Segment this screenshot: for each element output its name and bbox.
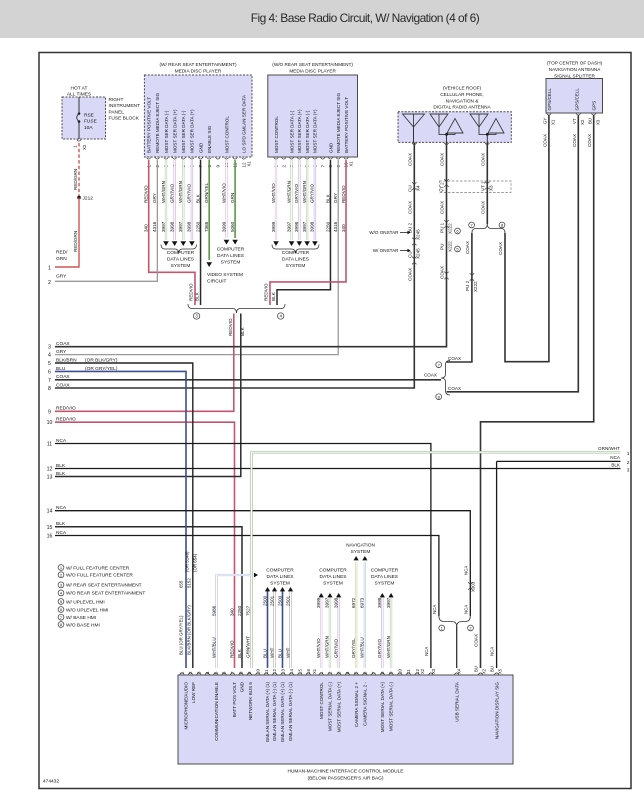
svg-text:INSTRUMENT: INSTRUMENT	[109, 103, 141, 109]
svg-text:WHT/VIO: WHT/VIO	[316, 638, 321, 658]
svg-text:MOST SER DATA (+): MOST SER DATA (+)	[172, 109, 177, 153]
svg-text:WHT/GRN: WHT/GRN	[286, 181, 291, 203]
svg-text:340: 340	[341, 224, 346, 232]
svg-text:2500: 2500	[262, 595, 267, 606]
svg-text:10: 10	[255, 668, 260, 674]
svg-text:CAMERA SIGNAL 2 -: CAMERA SIGNAL 2 -	[363, 682, 368, 726]
svg-text:CU: CU	[407, 185, 412, 192]
svg-text:COAX: COAX	[56, 341, 70, 347]
svg-text:11: 11	[47, 442, 52, 448]
svg-text:GRN/YEL: GRN/YEL	[204, 182, 209, 203]
svg-text:5986: 5986	[211, 605, 216, 616]
svg-text:COAX: COAX	[480, 153, 485, 166]
svg-text:WHT/VIO: WHT/VIO	[271, 183, 276, 203]
svg-text:5152: 5152	[187, 578, 192, 588]
svg-text:3: 3	[627, 468, 630, 474]
svg-text:GRN/WHT: GRN/WHT	[598, 446, 620, 451]
svg-text:15: 15	[47, 525, 53, 531]
svg-text:BLK: BLK	[237, 648, 242, 658]
svg-text:CELLULAR PHONE,: CELLULAR PHONE,	[440, 92, 484, 97]
svg-text:DATA LINES: DATA LINES	[282, 257, 309, 263]
svg-text:NAVIGATION &: NAVIGATION &	[446, 98, 480, 103]
svg-text:MOST SER DATA (-): MOST SER DATA (-)	[305, 110, 310, 153]
svg-text:RED/VIO: RED/VIO	[56, 417, 76, 423]
svg-text:3999: 3999	[221, 221, 226, 232]
svg-text:W/ BASE HMI: W/ BASE HMI	[66, 615, 96, 621]
svg-text:LO SPD GMLAN SER DATA: LO SPD GMLAN SER DATA	[242, 94, 247, 153]
svg-text:340: 340	[144, 224, 149, 232]
svg-text:14: 14	[289, 668, 294, 674]
svg-text:SYSTEM: SYSTEM	[270, 580, 290, 586]
svg-text:REDVIO: REDVIO	[188, 283, 193, 301]
svg-text:REDVIO: REDVIO	[263, 283, 268, 301]
svg-text:NCA: NCA	[463, 605, 468, 614]
svg-text:HUMAN-MACHINE INTERFACE CONTRO: HUMAN-MACHINE INTERFACE CONTROL MODULE	[287, 769, 403, 775]
svg-text:BU: BU	[490, 666, 495, 672]
svg-text:7: 7	[48, 378, 51, 384]
svg-text:COAX: COAX	[424, 373, 437, 378]
svg-text:2: 2	[48, 280, 51, 286]
svg-text:11: 11	[406, 669, 411, 674]
svg-text:VT 2: VT 2	[440, 182, 445, 192]
svg-text:10: 10	[397, 668, 402, 674]
svg-text:SYSTEM: SYSTEM	[351, 549, 371, 555]
svg-text:X245: X245	[415, 229, 420, 240]
svg-text:NCA: NCA	[610, 455, 621, 460]
svg-text:3997: 3997	[161, 221, 166, 232]
svg-text:(OR 654): (OR 654)	[192, 553, 197, 572]
svg-text:MOST CONTROL: MOST CONTROL	[319, 682, 324, 719]
svg-text:MOST SERIAL DATA (-): MOST SERIAL DATA (-)	[389, 682, 394, 732]
svg-text:WHT/VIO: WHT/VIO	[221, 183, 226, 203]
svg-text:3998: 3998	[169, 221, 174, 232]
svg-text:VT: VT	[572, 118, 577, 124]
svg-text:SYSTEM: SYSTEM	[286, 263, 306, 269]
svg-text:X1: X1	[247, 161, 252, 167]
svg-text:LOW REF: LOW REF	[191, 682, 196, 703]
svg-text:MOST CONTROL: MOST CONTROL	[224, 116, 229, 153]
svg-text:NCA: NCA	[463, 566, 468, 575]
svg-text:MICROPHONE/AUDIO: MICROPHONE/AUDIO	[184, 682, 189, 730]
svg-text:PU: PU	[440, 244, 445, 250]
svg-text:4: 4	[48, 353, 51, 359]
svg-text:GRY/VIO: GRY/VIO	[310, 184, 315, 203]
svg-text:COAX: COAX	[480, 201, 485, 214]
svg-text:1: 1	[48, 266, 51, 272]
svg-text:3997: 3997	[286, 221, 291, 232]
svg-text:CAMERA SIGNAL 2 +: CAMERA SIGNAL 2 +	[354, 682, 359, 727]
svg-text:RED/VIO: RED/VIO	[56, 406, 76, 412]
svg-text:3997: 3997	[386, 597, 391, 608]
svg-text:NAVIGATION: NAVIGATION	[346, 543, 375, 549]
svg-text:WHT/GRN: WHT/GRN	[302, 181, 307, 203]
svg-text:GMLAN SERIAL DATA (-) (1): GMLAN SERIAL DATA (-) (1)	[272, 682, 277, 742]
svg-text:ENABLE SIG: ENABLE SIG	[207, 125, 212, 153]
svg-text:PANEL: PANEL	[109, 109, 125, 115]
svg-text:GMLAN SERIAL DATA (+) (1): GMLAN SERIAL DATA (+) (1)	[280, 682, 285, 743]
svg-text:GRY: GRY	[56, 274, 67, 280]
svg-text:BU: BU	[474, 666, 479, 672]
svg-text:GRY/VIO: GRY/VIO	[294, 184, 299, 203]
svg-text:2250: 2250	[195, 221, 200, 232]
svg-text:474432: 474432	[43, 779, 59, 785]
svg-text:X1: X1	[349, 161, 354, 167]
svg-text:W/ UPLEVEL HMI: W/ UPLEVEL HMI	[66, 599, 105, 605]
svg-text:NCA: NCA	[424, 647, 429, 656]
svg-text:WHT/GRN: WHT/GRN	[178, 181, 183, 203]
svg-text:NAVIGATION ANTENNA: NAVIGATION ANTENNA	[549, 67, 602, 72]
svg-text:BATTERY POSITIVE VOLT: BATTERY POSITIVE VOLT	[344, 97, 349, 153]
svg-text:W/O UPLEVEL HMI: W/O UPLEVEL HMI	[66, 607, 108, 613]
svg-text:REDVIO: REDVIO	[144, 185, 149, 203]
svg-text:COAX: COAX	[56, 374, 70, 380]
svg-text:COAX: COAX	[474, 634, 479, 647]
svg-text:COAX: COAX	[465, 241, 470, 254]
svg-text:BU: BU	[587, 118, 592, 124]
svg-text:GPS: GPS	[592, 101, 597, 111]
svg-text:COMPUTER: COMPUTER	[319, 568, 347, 574]
svg-text:X5: X5	[498, 668, 503, 674]
svg-text:BLU: BLU	[277, 649, 282, 658]
svg-text:COAX: COAX	[542, 134, 547, 147]
svg-text:GMLAN SERIAL DATA (-) (1): GMLAN SERIAL DATA (-) (1)	[288, 682, 293, 742]
svg-text:4316: 4316	[333, 221, 338, 232]
svg-text:DATA LINES: DATA LINES	[371, 574, 398, 580]
svg-text:2: 2	[281, 165, 286, 168]
svg-text:6972: 6972	[351, 597, 356, 608]
svg-text:X222: X222	[448, 223, 453, 234]
svg-text:WHT/GRN: WHT/GRN	[386, 636, 391, 658]
svg-text:COAX: COAX	[407, 268, 412, 281]
svg-text:BLK: BLK	[195, 291, 200, 301]
svg-text:CIRCUIT: CIRCUIT	[207, 279, 227, 285]
svg-text:DIGITAL RADIO ANTENNA: DIGITAL RADIO ANTENNA	[433, 105, 491, 110]
svg-text:X3: X3	[431, 668, 436, 674]
svg-text:COMPUTER: COMPUTER	[217, 247, 245, 253]
svg-text:COAX: COAX	[440, 266, 445, 279]
svg-text:X4: X4	[415, 185, 420, 191]
svg-text:REMOTE MEDIA EJECT SIG: REMOTE MEDIA EJECT SIG	[155, 92, 160, 153]
svg-text:9: 9	[48, 409, 51, 415]
svg-text:COMPUTER: COMPUTER	[282, 250, 310, 256]
svg-text:W/O BASE HMI: W/O BASE HMI	[66, 622, 100, 628]
svg-text:VT 1: VT 1	[480, 181, 485, 191]
svg-text:8: 8	[48, 386, 51, 392]
svg-text:6973: 6973	[360, 597, 365, 608]
svg-text:WHT/GRN: WHT/GRN	[161, 181, 166, 203]
svg-text:REDVIO: REDVIO	[229, 640, 234, 658]
svg-text:X4: X4	[457, 668, 462, 674]
svg-text:2250: 2250	[237, 605, 242, 616]
svg-text:X222: X222	[473, 281, 478, 292]
svg-text:NAVIGATION DISPLAY SIG: NAVIGATION DISPLAY SIG	[494, 682, 499, 740]
svg-text:X2: X2	[82, 144, 87, 150]
svg-text:655: 655	[179, 580, 184, 588]
svg-text:X1: X1	[312, 668, 317, 674]
svg-text:2501: 2501	[285, 595, 290, 606]
svg-text:GPS/CELL: GPS/CELL	[547, 88, 552, 111]
svg-text:COAX: COAX	[56, 382, 70, 388]
svg-text:BLK: BLK	[325, 193, 330, 203]
svg-text:PU 2: PU 2	[465, 280, 470, 291]
svg-text:10A: 10A	[84, 125, 93, 131]
svg-text:MOST SERIAL DATA (+): MOST SERIAL DATA (+)	[380, 682, 385, 733]
svg-text:COMPUTER: COMPUTER	[167, 250, 195, 256]
svg-text:GRY/VIO: GRY/VIO	[333, 639, 338, 658]
svg-text:COAX: COAX	[440, 201, 445, 214]
svg-text:RIGHT: RIGHT	[109, 97, 124, 103]
svg-text:HOT AT: HOT AT	[71, 86, 88, 92]
svg-text:BLK: BLK	[271, 291, 276, 301]
svg-text:NETWORK BUS 5: NETWORK BUS 5	[248, 682, 253, 720]
svg-text:MOST SERIAL DATA (-): MOST SERIAL DATA (-)	[328, 682, 333, 732]
svg-text:X3: X3	[595, 119, 600, 125]
svg-text:MOST SER DATA (+): MOST SER DATA (+)	[313, 109, 318, 153]
svg-text:X3: X3	[488, 185, 493, 191]
svg-text:X222: X222	[448, 241, 453, 252]
svg-text:14: 14	[47, 509, 53, 515]
svg-text:3998: 3998	[187, 221, 192, 232]
svg-text:MOST SER DATA (-): MOST SER DATA (-)	[164, 110, 169, 153]
svg-text:(W/O REAR SEAT ENTERTAINMENT): (W/O REAR SEAT ENTERTAINMENT)	[272, 62, 353, 67]
svg-text:W/ REAR SEAT ENTERTAINMENT: W/ REAR SEAT ENTERTAINMENT	[66, 583, 142, 589]
svg-text:3998: 3998	[294, 221, 299, 232]
svg-text:1: 1	[627, 451, 630, 457]
svg-text:MOST SER DATA (-): MOST SER DATA (-)	[289, 110, 294, 153]
svg-text:FUSE BLOCK: FUSE BLOCK	[109, 116, 140, 122]
svg-text:WHT: WHT	[269, 647, 274, 658]
svg-text:GND: GND	[328, 142, 333, 153]
svg-text:W/ ONSTAR: W/ ONSTAR	[373, 248, 399, 253]
svg-text:COAX: COAX	[587, 134, 592, 147]
svg-text:16: 16	[306, 668, 311, 674]
svg-text:7: 7	[320, 165, 325, 168]
svg-text:Fig 4: Base Radio Circuit, W/: Fig 4: Base Radio Circuit, W/ Navigation…	[251, 11, 480, 25]
svg-text:7527: 7527	[245, 605, 250, 616]
svg-text:W/ FULL FEATURE CENTER: W/ FULL FEATURE CENTER	[66, 565, 130, 571]
svg-text:BATT POS VOLT: BATT POS VOLT	[232, 682, 237, 717]
svg-text:(W/ REAR SEAT ENTERTAINMENT): (W/ REAR SEAT ENTERTAINMENT)	[160, 62, 237, 67]
svg-text:MEDIA DISC PLAYER: MEDIA DISC PLAYER	[175, 68, 222, 73]
svg-text:GRY: GRY	[56, 349, 67, 355]
svg-text:3998: 3998	[377, 597, 382, 608]
svg-text:MOST SERIAL DATA (+): MOST SERIAL DATA (+)	[336, 682, 341, 733]
svg-text:SYSTEM: SYSTEM	[221, 260, 241, 266]
svg-text:5: 5	[48, 361, 51, 367]
svg-text:PU 1: PU 1	[440, 222, 445, 233]
svg-text:GRY/VIO: GRY/VIO	[169, 184, 174, 203]
svg-text:REMOTE MEDIA EJECT SIG: REMOTE MEDIA EJECT SIG	[336, 92, 341, 153]
svg-text:GY: GY	[543, 118, 548, 124]
svg-text:COMPUTER: COMPUTER	[371, 568, 399, 574]
svg-text:J212: J212	[83, 196, 94, 202]
svg-text:MOST CONTROL: MOST CONTROL	[274, 116, 279, 153]
svg-text:COAX: COAX	[407, 153, 412, 166]
svg-text:GND: GND	[198, 142, 203, 153]
svg-text:BATTERY POSITIVE VOLT: BATTERY POSITIVE VOLT	[147, 97, 152, 153]
svg-text:12: 12	[272, 668, 277, 674]
svg-text:RED/: RED/	[56, 250, 68, 256]
svg-text:SYSTEM: SYSTEM	[323, 580, 343, 586]
svg-text:X2: X2	[420, 668, 425, 674]
svg-text:2500: 2500	[277, 595, 282, 606]
svg-text:3999: 3999	[271, 221, 276, 232]
svg-text:FUSE: FUSE	[84, 119, 97, 125]
svg-text:BLU: BLU	[262, 649, 267, 658]
svg-text:WHT: WHT	[285, 647, 290, 658]
svg-text:BLK/BRN (OR BLK/GRY): BLK/BRN (OR BLK/GRY)	[187, 605, 192, 655]
svg-text:3998: 3998	[310, 221, 315, 232]
svg-text:(OR 5148): (OR 5148)	[184, 551, 189, 572]
svg-text:W/O ONSTAR: W/O ONSTAR	[369, 230, 399, 235]
svg-text:BLK: BLK	[611, 463, 621, 468]
svg-text:13: 13	[47, 475, 53, 481]
svg-text:12: 12	[47, 467, 53, 473]
svg-text:RSE: RSE	[84, 113, 94, 119]
svg-text:2: 2	[627, 460, 630, 466]
svg-text:DATA LINES: DATA LINES	[266, 574, 293, 580]
svg-text:COAX: COAX	[407, 201, 412, 214]
svg-text:WHT/BLU: WHT/BLU	[211, 637, 216, 658]
svg-text:DATA LINES: DATA LINES	[319, 574, 346, 580]
svg-text:GRN: GRN	[230, 193, 235, 203]
svg-text:W/O REAR SEAT ENTERTAINMENT: W/O REAR SEAT ENTERTAINMENT	[66, 591, 145, 597]
svg-text:X2: X2	[580, 119, 585, 125]
svg-text:16: 16	[47, 534, 53, 540]
svg-text:COAX: COAX	[440, 153, 445, 166]
svg-text:(BELOW PASSENGER'S AIR BAG): (BELOW PASSENGER'S AIR BAG)	[308, 775, 384, 781]
svg-text:9: 9	[215, 165, 220, 168]
svg-text:RED/GRN: RED/GRN	[73, 169, 78, 190]
svg-text:GRN: GRN	[56, 256, 67, 262]
svg-text:NCA: NCA	[432, 605, 437, 614]
svg-text:GRY/YEL: GRY/YEL	[351, 638, 356, 658]
svg-text:3997: 3997	[325, 597, 330, 608]
svg-text:NCA: NCA	[490, 647, 495, 656]
svg-text:COAX: COAX	[448, 386, 461, 391]
svg-text:3: 3	[48, 345, 51, 351]
svg-text:SIGNAL SPLITTER: SIGNAL SPLITTER	[554, 73, 595, 78]
svg-text:W/O FULL FEATURE CENTER: W/O FULL FEATURE CENTER	[66, 573, 133, 579]
svg-text:BLK: BLK	[195, 193, 200, 203]
svg-text:GMLAN SERIAL DATA (+) (1): GMLAN SERIAL DATA (+) (1)	[265, 682, 270, 743]
svg-text:COAX: COAX	[498, 242, 503, 255]
svg-text:X1: X1	[551, 119, 556, 125]
svg-text:DATA LINES: DATA LINES	[167, 257, 194, 263]
svg-text:BLU (OR GRY/YEL): BLU (OR GRY/YEL)	[179, 615, 184, 655]
svg-text:6: 6	[48, 369, 51, 375]
svg-text:CU: CU	[407, 251, 412, 258]
svg-text:5060: 5060	[230, 221, 235, 232]
svg-text:3997: 3997	[302, 221, 307, 232]
svg-text:(VEHICLE ROOF): (VEHICLE ROOF)	[443, 86, 481, 91]
svg-text:(TOP CENTER OF DASH): (TOP CENTER OF DASH)	[547, 61, 603, 66]
svg-text:3997: 3997	[178, 221, 183, 232]
svg-text:GRY: GRY	[152, 193, 157, 203]
svg-text:11: 11	[264, 669, 269, 674]
svg-text:4316: 4316	[152, 221, 157, 232]
svg-text:MOST SER DATA (+): MOST SER DATA (+)	[190, 109, 195, 153]
svg-text:GRY/VIO: GRY/VIO	[187, 184, 192, 203]
svg-text:X2: X2	[482, 668, 487, 674]
svg-text:BLK: BLK	[56, 521, 66, 527]
svg-text:SYSTEM: SYSTEM	[375, 580, 395, 586]
svg-text:X303: X303	[471, 581, 476, 592]
svg-text:X245: X245	[415, 248, 420, 259]
svg-text:RED/GRN: RED/GRN	[73, 231, 78, 252]
svg-text:MOST SER DATA (-): MOST SER DATA (-)	[181, 110, 186, 153]
svg-text:7368: 7368	[204, 221, 209, 232]
svg-text:GRN/WHT: GRN/WHT	[245, 636, 250, 658]
svg-text:GPS/CELL: GPS/CELL	[574, 88, 579, 111]
svg-text:3999: 3999	[316, 597, 321, 608]
svg-text:COMMUNICATION ENABLE: COMMUNICATION ENABLE	[214, 682, 219, 741]
svg-text:13: 13	[281, 668, 286, 674]
svg-text:REDVIO: REDVIO	[228, 318, 233, 336]
svg-text:COMPUTER: COMPUTER	[266, 568, 294, 574]
svg-text:BLK: BLK	[240, 326, 245, 336]
svg-text:REDVIO: REDVIO	[341, 185, 346, 203]
svg-text:3998: 3998	[333, 597, 338, 608]
svg-text:GRY: GRY	[333, 193, 338, 203]
svg-text:DATA LINES: DATA LINES	[217, 253, 244, 259]
svg-text:VIDEO SYSTEM: VIDEO SYSTEM	[207, 272, 243, 278]
svg-text:15: 15	[297, 668, 302, 674]
svg-text:GND: GND	[240, 681, 245, 692]
svg-text:GRY/VIO: GRY/VIO	[377, 639, 382, 658]
svg-text:2501: 2501	[269, 595, 274, 606]
svg-text:MEDIA DISC PLAYER: MEDIA DISC PLAYER	[289, 68, 336, 73]
svg-text:SYSTEM: SYSTEM	[171, 263, 191, 269]
svg-text:USB SERIAL DATA: USB SERIAL DATA	[455, 681, 460, 722]
svg-text:COAX: COAX	[572, 134, 577, 147]
svg-text:2250: 2250	[325, 221, 330, 232]
svg-text:BLK: BLK	[56, 471, 66, 477]
svg-text:MOST SER DATA (+): MOST SER DATA (+)	[297, 109, 302, 153]
svg-text:WHT/GRN: WHT/GRN	[325, 636, 330, 658]
svg-text:340: 340	[229, 608, 234, 616]
svg-text:10: 10	[47, 420, 53, 426]
svg-text:WHT/BLU: WHT/BLU	[360, 637, 365, 658]
